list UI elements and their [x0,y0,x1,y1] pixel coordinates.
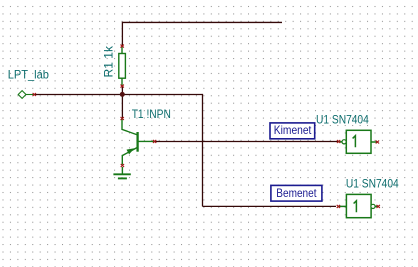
wire T1 base to Kimenet gate [154,141,338,143]
net label Kimenet [270,123,315,139]
junction dot [120,92,125,97]
pin x U1 bottom input [337,205,340,208]
transistor T1 [122,118,154,164]
wire LPT horizontal [34,94,202,96]
svg-text:T1 !NPN: T1 !NPN [132,107,171,121]
gate 1 glyph bottom [354,201,357,213]
wire horizontal to Bemenet gate [203,205,337,207]
pin x U1 top output [376,141,379,144]
svg-text:Kimenet: Kimenet [274,123,312,137]
wire R1 bottom to junction [121,86,123,95]
pin x T1 collector [121,117,124,120]
op-gate U1 bottom (inverter) [338,194,378,217]
svg-text:LPT_láb: LPT_láb [8,67,49,81]
wire junction to T1 collector [121,95,123,119]
ground [113,167,130,178]
svg-text:U1 SN7404: U1 SN7404 [316,113,369,127]
svg-text:U1 SN7404: U1 SN7404 [346,176,399,190]
connector LPT_lab diamond [18,91,34,99]
svg-text:Bemenet: Bemenet [276,186,317,200]
gate 1 glyph top [353,136,356,148]
pin x U1 top input [337,140,340,143]
pin x R1 bottom [121,85,124,88]
pin x U1 bottom output [377,205,380,208]
wire vertical to Bemenet [202,94,204,206]
pin x R1 top [121,45,124,48]
pin x T1 base [153,140,156,143]
wire VCC top horizontal [122,21,282,23]
pin x LPT [33,93,36,96]
wire VCC to R1 top [121,22,123,46]
pin x T1 emitter [121,164,124,167]
net label Bemenet [271,185,322,201]
resistor R1 [119,46,126,86]
op-gate U1 top (mirrored inverter) [339,130,378,153]
transistor T1 emitter arrow [127,148,135,154]
svg-text:R1 1k: R1 1k [102,45,116,77]
